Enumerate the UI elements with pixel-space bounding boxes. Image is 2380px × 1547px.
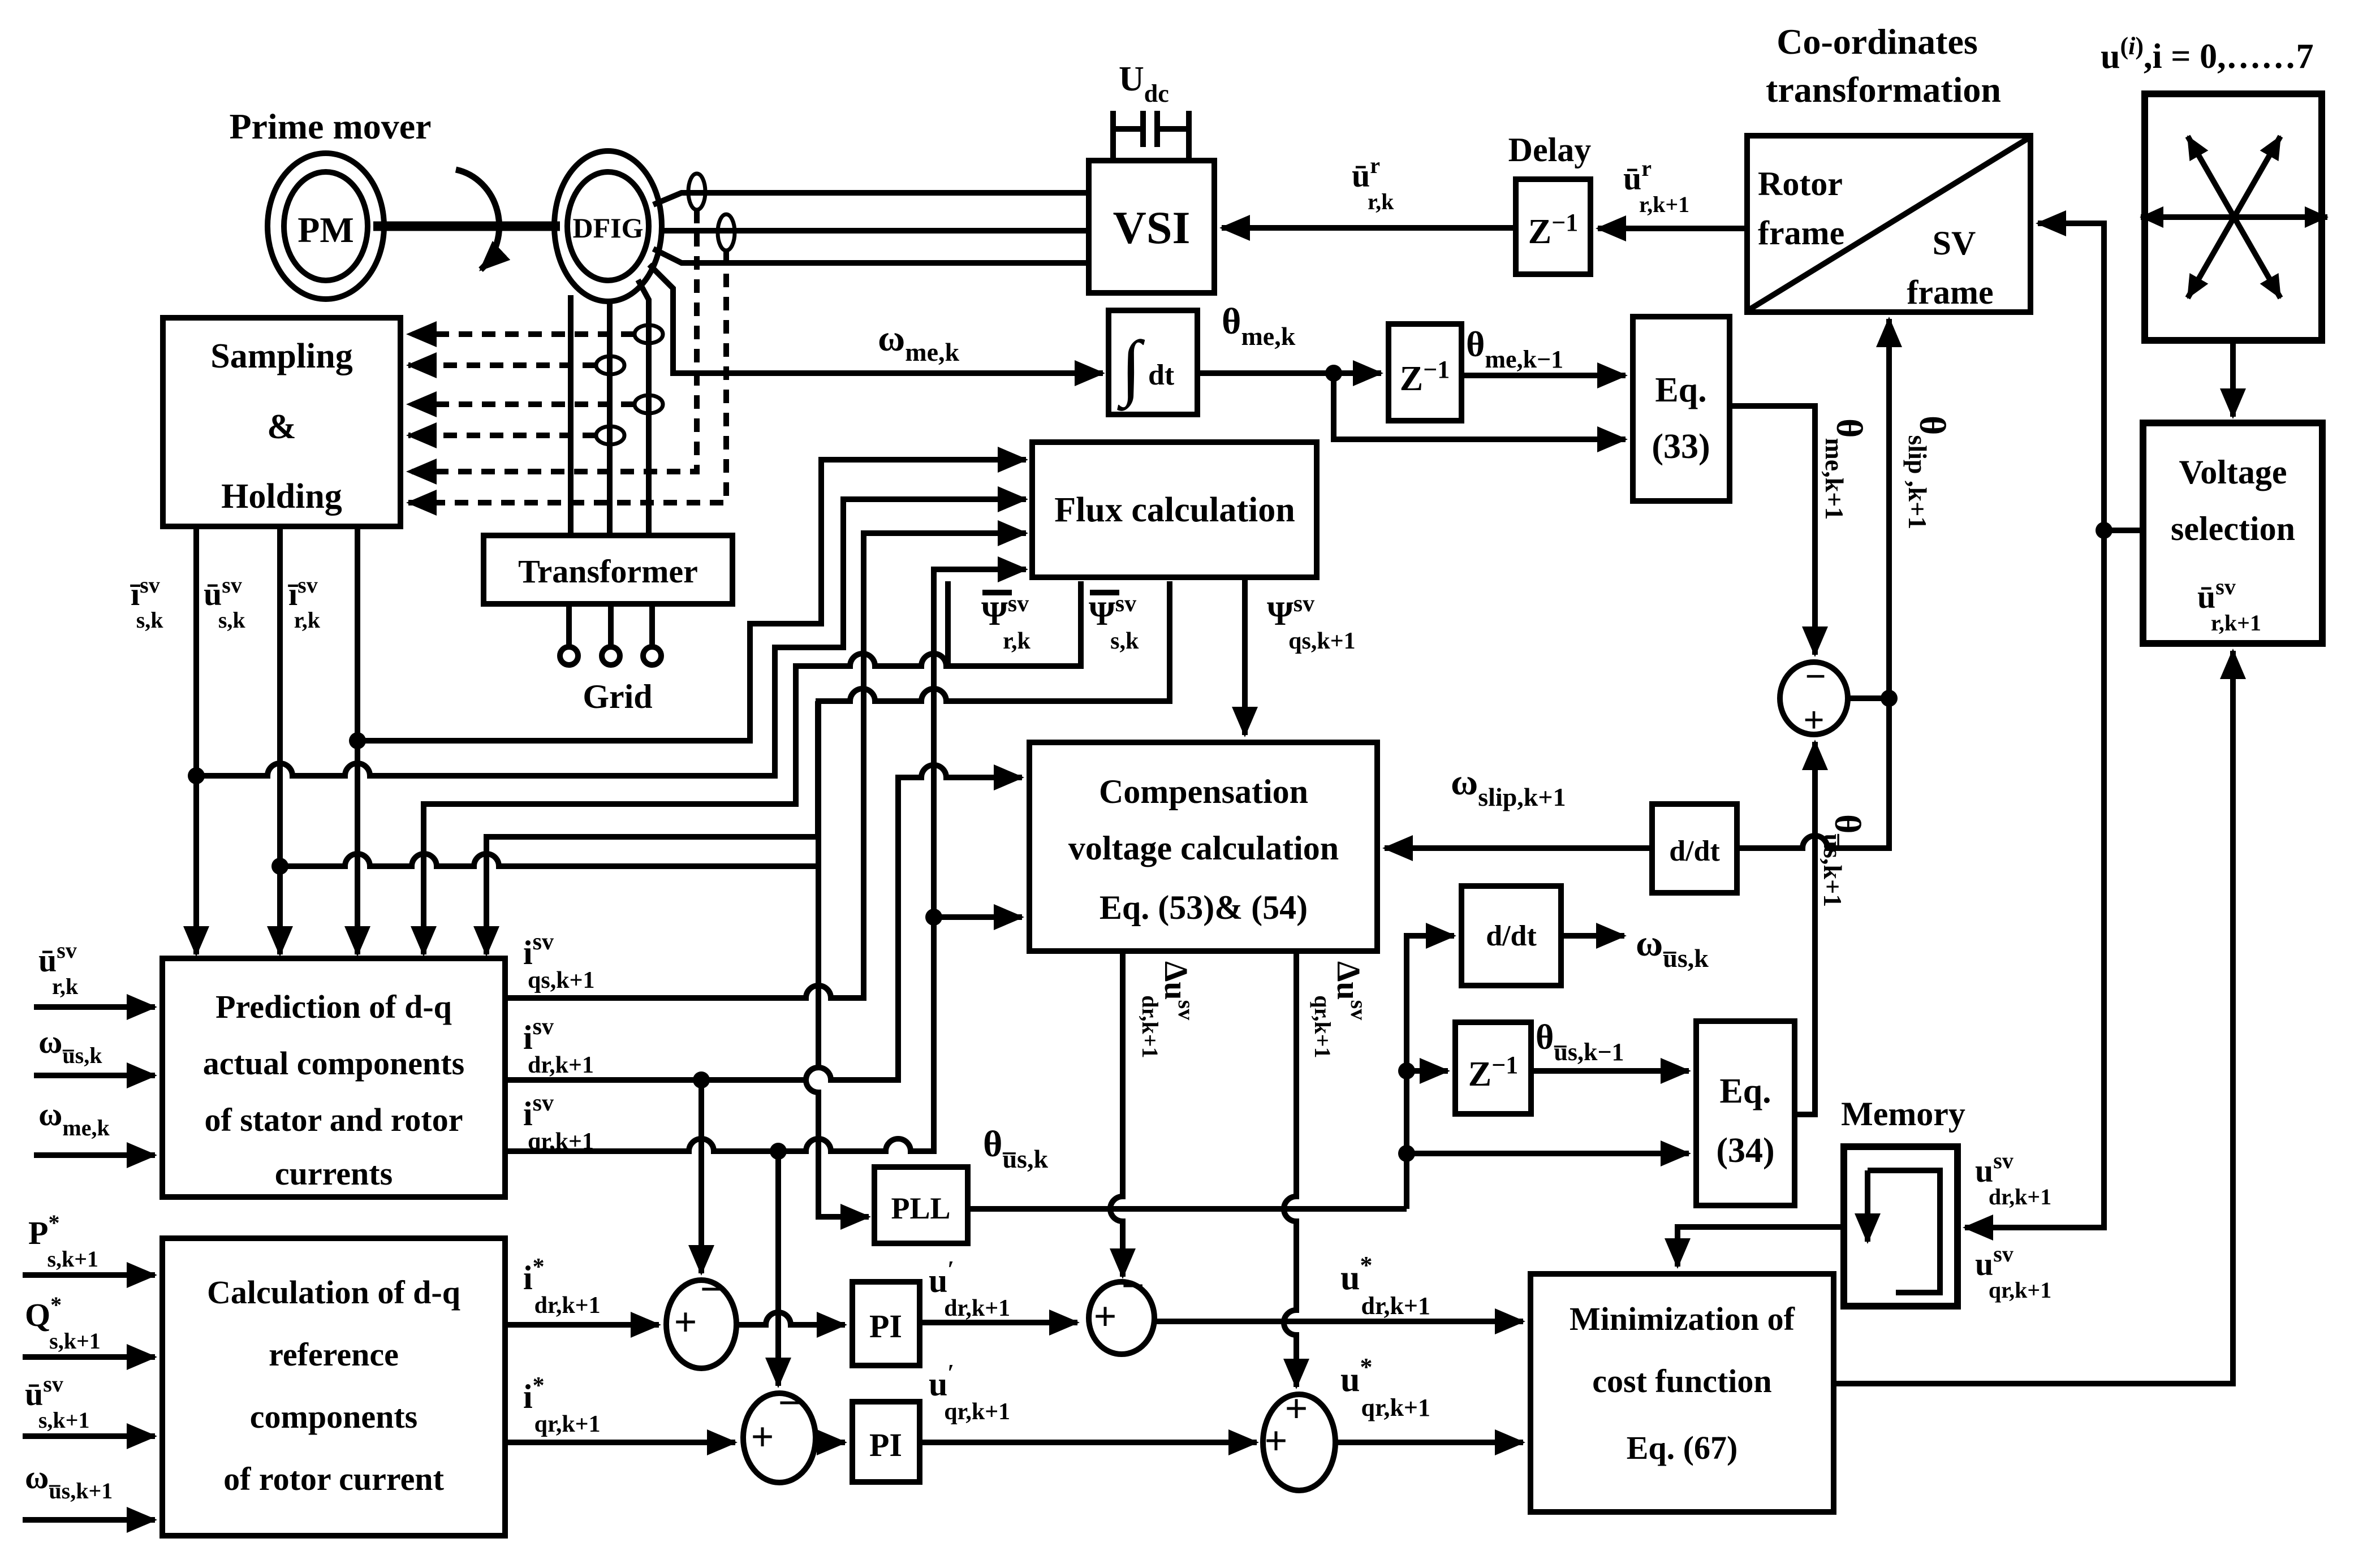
block PI 2 [852, 1402, 920, 1482]
wire DFIG-VSI phase 3 [653, 249, 1089, 263]
svg-text:(34): (34) [1716, 1131, 1774, 1170]
wire i_qr out [505, 1139, 778, 1151]
prime mover PM outer circle [268, 153, 384, 299]
wire theta_us to Eq34 in2 [1407, 1151, 1689, 1156]
wire PLL net up [1407, 936, 1454, 1209]
svg-text:d/dt: d/dt [1486, 920, 1537, 952]
wire in u_s,k+1 [23, 1433, 155, 1439]
block PI 1 [852, 1282, 920, 1365]
wire delay to VSI [1222, 225, 1516, 231]
arrowhead flux in3 [984, 530, 1026, 536]
wire omega_me from DFIG [649, 265, 1103, 373]
block memory outer [1844, 1147, 1958, 1306]
dashed wire sensor2 to S&H [408, 362, 596, 368]
wire Eq33 to K1 [1730, 406, 1815, 655]
wire psi_r horizontal to prediction [486, 701, 818, 954]
wire theta_me to Eq33 in2 [1334, 373, 1626, 439]
wire in Q* [23, 1354, 155, 1360]
junction theta_us to Eq34 [1398, 1145, 1415, 1162]
wire in P* [23, 1272, 155, 1278]
wire DFIG-VSI phase 1 [653, 193, 1089, 205]
sensor ellipse on phase 1 [688, 174, 705, 210]
wire thetaslip to d/dt [1737, 698, 1889, 848]
wire vsel to transformation and memory [2104, 528, 2143, 533]
wire us down to PLL [806, 866, 869, 1217]
block integrator dt [1109, 310, 1197, 414]
wire PI2 to sumq [920, 1440, 1257, 1445]
wire S&H out ir [355, 526, 360, 954]
wire psi_r to prediction [945, 581, 951, 664]
svg-text:(33): (33) [1652, 427, 1710, 466]
svg-text:Grid: Grid [583, 678, 652, 715]
svg-text:Prediction of d-q: Prediction of d-q [215, 988, 452, 1025]
wire Z2 to Eq33 in1 [1461, 373, 1626, 378]
memory inner symbol arrow [1865, 1170, 1870, 1242]
arrowhead flux in1 [984, 457, 1026, 463]
block d/dt slip [1652, 804, 1737, 893]
svg-text:DFIG: DFIG [573, 212, 644, 244]
junction ir distribution [349, 732, 366, 749]
svg-text:Compensation: Compensation [1099, 773, 1308, 810]
block d/dt us [1461, 886, 1561, 986]
svg-text:Eq.: Eq. [1655, 371, 1706, 409]
wire i*_dr to sum [505, 1322, 659, 1328]
wire K1 out [1848, 695, 1889, 701]
wire sum2 to PI2 [816, 1440, 845, 1445]
svg-text:reference: reference [269, 1336, 399, 1373]
svg-text:+: + [1803, 699, 1825, 741]
dashed wire sensor5 to S&H [408, 210, 697, 472]
svg-text:of stator and rotor: of stator and rotor [205, 1101, 463, 1138]
svg-text:cost function: cost function [1592, 1363, 1771, 1399]
transformation diagonal [1749, 138, 2029, 310]
wire theta_slip up to transformation [1886, 319, 1892, 698]
svg-text:Calculation of d-q: Calculation of d-q [207, 1274, 460, 1311]
wire in omega_us,k+1 [23, 1517, 155, 1523]
capacitor plate 1 [1140, 111, 1146, 147]
wire d/dt us out [1561, 933, 1624, 939]
wire theta_us to Z3 [1407, 1068, 1448, 1074]
block minimization [1530, 1274, 1834, 1512]
grid terminal 2 [602, 647, 620, 665]
svg-text:PI: PI [869, 1427, 902, 1463]
wire grid stub 3 [649, 604, 655, 646]
wire PLL out [968, 1206, 1407, 1212]
sum circle i_dr [666, 1280, 736, 1368]
wire grid stub 1 [566, 604, 572, 646]
junction is distribution [188, 767, 205, 784]
block prediction [162, 958, 505, 1197]
dashed wire sensor3 to S&H [408, 401, 635, 407]
junction i_dr [693, 1071, 710, 1088]
sensor ellipse rotor i [635, 395, 663, 413]
generator DFIG outer circle [554, 151, 662, 301]
block calculation [162, 1238, 505, 1536]
wire S&H out us [277, 526, 283, 954]
wire Z3 to Eq34 in1 [1531, 1068, 1689, 1074]
svg-text:voltage calculation: voltage calculation [1068, 829, 1339, 867]
block u(i) space vectors [2145, 94, 2322, 340]
svg-text:Memory: Memory [1841, 1095, 1965, 1133]
svg-text:of rotor current: of rotor current [223, 1460, 444, 1497]
svg-text:components: components [250, 1398, 417, 1435]
wire psi_s to prediction [424, 581, 1081, 954]
wire i_qr down to sum2 [775, 1151, 781, 1386]
svg-text:+: + [674, 1299, 697, 1345]
wire S&H out is [193, 526, 199, 954]
wire u(i) to voltage selection [2230, 340, 2236, 417]
dashed wire sensor4 to S&H [408, 433, 596, 438]
wire DFIG-transformer a [568, 295, 574, 535]
wire d/dt to compensation [1385, 845, 1652, 851]
arrowhead flux in4 [984, 567, 1026, 572]
svg-text:frame: frame [1907, 274, 1993, 311]
sensor ellipse rotor u [596, 426, 624, 444]
wire DFIG-transformer c [638, 280, 649, 535]
block PLL [874, 1167, 968, 1243]
space vector arrow 60 [2234, 136, 2280, 217]
block VSI [1089, 161, 1214, 293]
svg-text:&: & [267, 408, 296, 446]
block coordinates transformation [1747, 136, 2030, 312]
space vector arrow 240 [2188, 217, 2234, 298]
junction theta_us to Z3 [1398, 1062, 1415, 1079]
svg-text:+: + [1093, 1294, 1116, 1339]
capacitor wire left [1113, 126, 1143, 132]
svg-text:−: − [778, 1380, 801, 1425]
svg-text:∫: ∫ [1116, 326, 1145, 411]
wire i_qr branch comp in2 [934, 914, 1022, 920]
svg-text:currents: currents [275, 1155, 393, 1192]
svg-text:frame: frame [1758, 214, 1844, 252]
svg-text:Sampling: Sampling [210, 337, 353, 375]
wire sum to PI1 [736, 1312, 845, 1325]
space vector arrow 120 [2188, 136, 2234, 217]
wire integrator to Z2 [1197, 370, 1381, 376]
sensor ellipse stator v [635, 325, 663, 343]
sensor ellipse stator u [596, 356, 624, 374]
wire rotorframe to delay [1598, 226, 1747, 231]
wire i*_qr to sum2 [505, 1440, 735, 1445]
svg-text:dt: dt [1148, 359, 1175, 391]
rotation arrow [456, 170, 499, 270]
space vector arrow 300 [2234, 217, 2280, 298]
junction theta_slip [1881, 690, 1898, 707]
wire u*_dr to minimization [1154, 1319, 1523, 1324]
wire delta_u_dr down [1110, 951, 1123, 1277]
sum circle u_qr [1263, 1394, 1335, 1490]
svg-text:PI: PI [869, 1308, 902, 1345]
junction i_qr [770, 1143, 787, 1160]
wire DFIG-transformer b [607, 301, 613, 535]
generator DFIG inner circle [567, 172, 649, 280]
dashed wire sensor6 to S&H [408, 250, 726, 503]
block Delay Z-1 [1516, 179, 1590, 274]
capacitor wire right [1157, 126, 1189, 132]
sum circle theta_slip [1780, 662, 1848, 734]
svg-text:−: − [1805, 656, 1826, 697]
prime mover PM inner circle [284, 172, 368, 280]
capacitor dc link right lead [1186, 111, 1192, 161]
overbar psi_r [982, 590, 1012, 595]
memory inner symbol frame [1868, 1170, 1940, 1293]
svg-text:+: + [1284, 1386, 1308, 1431]
overbar psi_s [1090, 590, 1119, 595]
junction us distribution [271, 858, 288, 875]
dashed wire sensor1 to S&H [408, 331, 635, 337]
svg-text:actual components: actual components [203, 1045, 464, 1082]
wire vsel up to SV frame [2038, 223, 2104, 530]
svg-text:Eq. (53)& (54): Eq. (53)& (54) [1100, 889, 1308, 926]
arrowhead flux in2 [984, 496, 1026, 502]
wire DFIG-VSI phase 2 [661, 228, 1089, 234]
wire i_dr down to sum [699, 1080, 704, 1273]
space vector arrow 180 [2141, 214, 2234, 220]
wire i_qr to flux input4 [778, 569, 1012, 1151]
sensor ellipse on phase 2 [718, 214, 735, 250]
wire ir to flux staircase [357, 460, 1012, 741]
junction vsel out [2096, 522, 2112, 539]
wire grid stub 2 [608, 604, 614, 646]
block Transformer [484, 535, 732, 604]
svg-text:+: + [751, 1414, 774, 1459]
wire in omega_me,k [34, 1152, 155, 1158]
svg-text:Rotor: Rotor [1758, 165, 1843, 202]
wire psi_qs to compensation [1242, 577, 1248, 735]
shaft PM-DFIG [373, 222, 560, 231]
wire vsel down to memory [1965, 530, 2104, 1228]
wire i_dr to comp in1 [701, 765, 1022, 1080]
svg-text:Co-ordinates: Co-ordinates [1777, 21, 1978, 62]
wire is to flux staircase [196, 499, 1012, 776]
sum circle i_qr [743, 1393, 816, 1483]
svg-text:Prime mover: Prime mover [229, 106, 431, 146]
svg-text:+: + [1264, 1418, 1287, 1463]
wire us to flux bottom [280, 581, 1170, 866]
wire minimization to vsel [1834, 651, 2233, 1384]
svg-text:d/dt: d/dt [1669, 835, 1720, 867]
svg-text:PM: PM [297, 210, 354, 250]
svg-text:VSI: VSI [1113, 202, 1191, 253]
wire delta_u_qr down [1284, 951, 1296, 1387]
wire Eq34 to K1 plus [1795, 742, 1815, 1114]
wire PI1 to sumd [920, 1320, 1077, 1325]
block Eq34 [1696, 1021, 1795, 1205]
capacitor plate 2 [1154, 111, 1160, 147]
block Z-1 us [1455, 1022, 1531, 1114]
svg-text:SV: SV [1933, 224, 1976, 262]
svg-text:−: − [700, 1267, 723, 1312]
wire i_dr out [505, 1077, 701, 1083]
block compensation [1029, 742, 1377, 951]
capacitor dc link left lead [1110, 111, 1116, 161]
space vector arrow 0 [2234, 214, 2327, 220]
svg-text:Eq. (67): Eq. (67) [1627, 1429, 1738, 1466]
svg-text:transformation: transformation [1766, 70, 2001, 110]
wire in omega_us,k [34, 1073, 155, 1078]
wire memory to minimization [1678, 1227, 1844, 1267]
svg-text:Transformer: Transformer [518, 553, 698, 590]
wire u*_qr to minimization [1335, 1440, 1523, 1445]
junction theta_me [1325, 365, 1342, 382]
svg-text:selection: selection [2171, 510, 2295, 547]
svg-text:Minimization of: Minimization of [1570, 1300, 1795, 1337]
wire in u_r,k [34, 1004, 155, 1010]
svg-text:Flux calculation: Flux calculation [1054, 491, 1295, 529]
block voltage selection [2143, 423, 2322, 643]
block Z-1 me [1389, 324, 1461, 421]
block flux calculation [1032, 442, 1317, 577]
svg-text:Holding: Holding [221, 477, 342, 516]
grid terminal 3 [643, 647, 661, 665]
wire i_qs to flux input3 [505, 533, 1012, 998]
svg-text:−: − [1121, 1263, 1144, 1308]
svg-text:Voltage: Voltage [2179, 453, 2287, 491]
svg-text:PLL: PLL [891, 1191, 950, 1225]
grid terminal 1 [560, 647, 578, 665]
svg-text:Eq.: Eq. [1719, 1072, 1771, 1110]
svg-text:Delay: Delay [1508, 131, 1592, 168]
block Eq33 [1633, 317, 1730, 501]
junction i_qr to comp [925, 909, 942, 926]
sum circle u_dr [1089, 1282, 1154, 1354]
block Sampling and Holding [163, 318, 400, 526]
